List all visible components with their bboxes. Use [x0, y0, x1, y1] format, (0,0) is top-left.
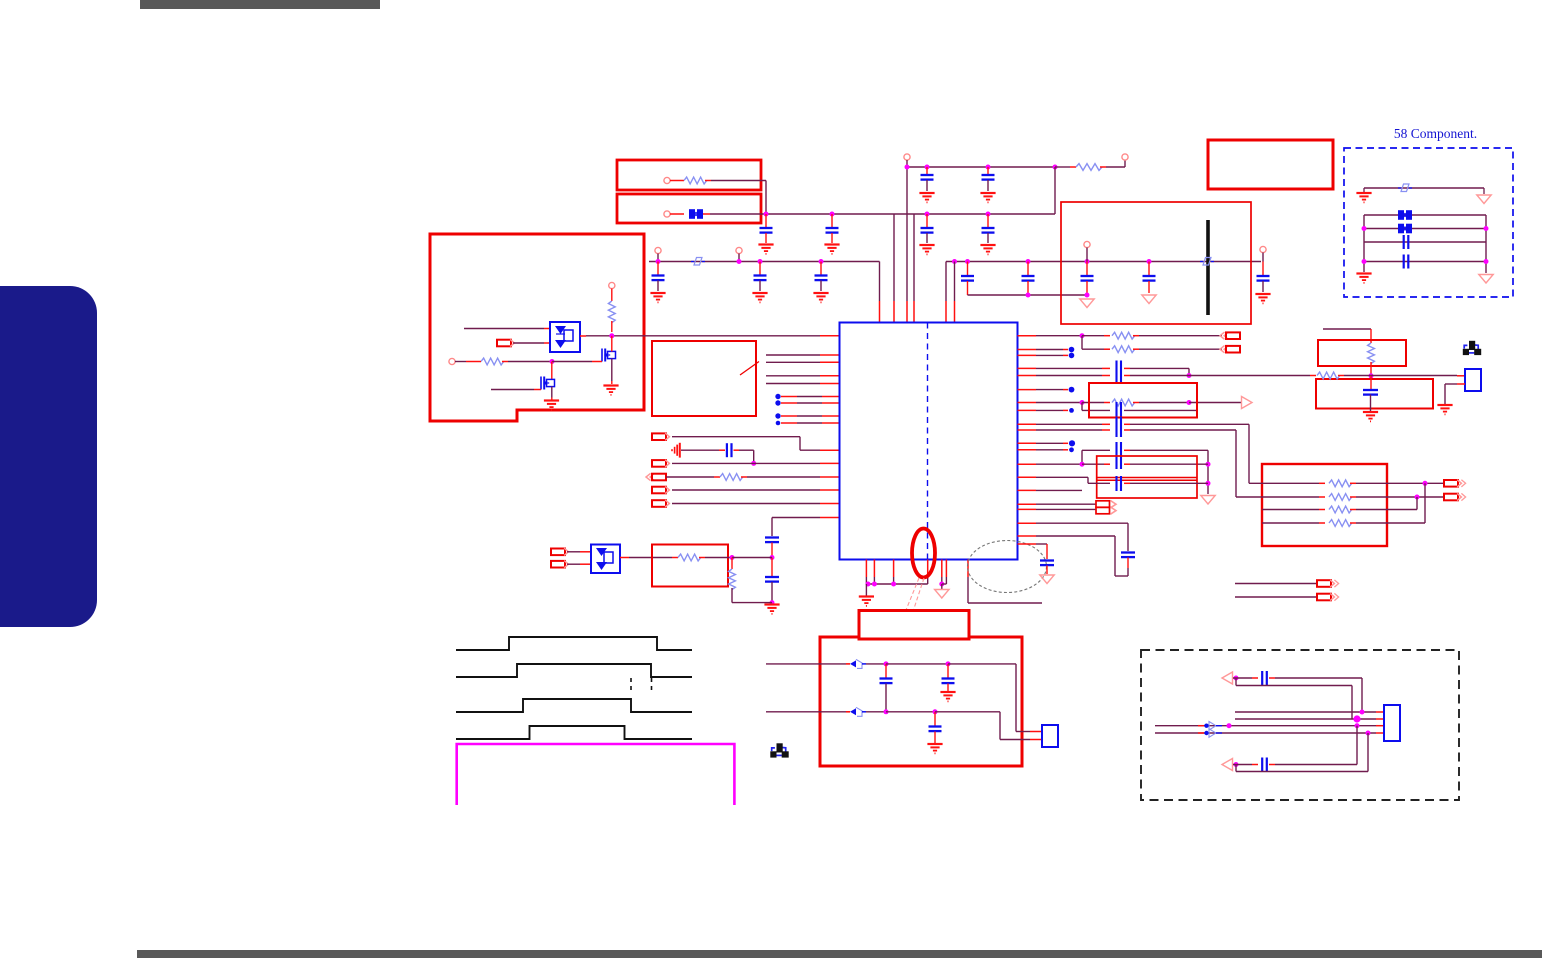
junction	[884, 661, 889, 666]
wire	[1082, 449, 1110, 451]
wire	[865, 584, 867, 596]
diode D6	[1209, 722, 1216, 731]
annotation box 12 (filter block)	[820, 637, 1022, 766]
wire	[1233, 764, 1252, 766]
junction	[866, 582, 871, 587]
wire gate	[491, 389, 534, 391]
hierarchy icon 2	[772, 748, 775, 751]
annotation box 3 (decoupling group)	[1061, 202, 1251, 324]
wire bottom bus	[866, 583, 927, 585]
wire	[766, 663, 846, 665]
no-connect stub	[1036, 389, 1063, 391]
pin P2	[664, 211, 670, 217]
wire	[865, 560, 867, 578]
ground	[940, 691, 955, 693]
annotation box 1 (resistor row)	[617, 160, 761, 190]
capacitor C15	[1403, 235, 1405, 249]
connector J6	[652, 500, 666, 507]
annotation box 9	[1262, 464, 1387, 546]
junction	[952, 259, 957, 264]
resistor R6	[672, 557, 678, 559]
wire	[620, 557, 629, 559]
wire	[1124, 482, 1130, 484]
wire	[1364, 241, 1486, 243]
diagonal mark	[740, 362, 759, 376]
wire	[766, 711, 846, 713]
wire	[1155, 732, 1376, 734]
wire	[866, 711, 886, 713]
junction	[1360, 710, 1365, 715]
ground GND triangle	[941, 584, 943, 589]
ground	[824, 243, 839, 245]
wire bus D	[946, 261, 1261, 263]
connector J13	[1096, 507, 1110, 514]
junction	[1080, 400, 1085, 405]
transistor pack Q4 (dual TVS diode)	[591, 545, 620, 574]
wire	[967, 560, 969, 578]
resistor R13	[1329, 506, 1352, 513]
wire	[1036, 375, 1102, 377]
capacitor C10	[967, 262, 969, 276]
connector J4	[646, 473, 651, 480]
wire bus A	[907, 166, 1055, 168]
wire	[1082, 335, 1104, 337]
wire	[766, 375, 820, 377]
capacitor C5	[926, 167, 928, 174]
connector J17	[1317, 594, 1331, 601]
annotation box 7	[1089, 383, 1197, 418]
capacitor C25	[1121, 551, 1135, 553]
junction	[751, 461, 756, 466]
wire	[551, 387, 553, 398]
wire	[1364, 261, 1486, 263]
wire	[927, 560, 929, 578]
junction	[965, 259, 970, 264]
junction	[1227, 723, 1232, 728]
pin P1	[664, 177, 670, 183]
diode D7	[1209, 729, 1216, 738]
resistor R16 on wire	[1317, 372, 1340, 379]
connector J12	[1096, 501, 1110, 508]
wire	[886, 663, 948, 665]
wire	[1081, 403, 1083, 411]
wire	[672, 436, 800, 438]
wire	[1055, 166, 1070, 168]
pin P5	[655, 247, 661, 253]
capacitor C11	[1027, 262, 1029, 276]
wire	[873, 560, 875, 578]
capacitor C26	[1040, 559, 1054, 561]
wire	[893, 560, 895, 578]
waveform trace 4	[456, 726, 692, 739]
resistor R7	[731, 558, 733, 570]
wire	[1235, 678, 1237, 686]
annotation box 10	[1318, 340, 1406, 366]
ground	[980, 244, 995, 246]
ground	[859, 595, 874, 597]
connector J7	[551, 549, 565, 556]
ground	[927, 743, 942, 745]
connector J22 (blue box)	[1384, 705, 1400, 741]
capacitor C1	[765, 214, 767, 227]
connector J15	[1444, 494, 1458, 501]
wire	[1124, 429, 1130, 431]
wire	[1082, 402, 1104, 404]
capacitor C21	[1115, 402, 1117, 418]
pin P6	[736, 247, 742, 253]
ground	[1255, 293, 1270, 295]
callout leader lines	[906, 578, 919, 610]
junction	[830, 212, 835, 217]
junction	[905, 165, 910, 170]
resistor R4	[481, 358, 504, 365]
no-connect stub	[775, 413, 780, 418]
wire	[1082, 463, 1110, 465]
ground GND triangle	[1040, 575, 1054, 584]
capacitor C3	[926, 214, 928, 227]
wire	[1139, 335, 1222, 337]
wire	[1139, 348, 1222, 350]
wire	[1124, 449, 1130, 451]
wire bus C	[649, 261, 880, 263]
wire	[1016, 731, 1030, 733]
junction	[1423, 481, 1428, 486]
wire	[1124, 423, 1130, 425]
resistor R12	[1329, 494, 1352, 501]
wire	[1036, 476, 1088, 478]
junction	[609, 333, 614, 338]
wire	[1356, 482, 1444, 484]
connector J9	[1220, 332, 1225, 339]
capacitor C22	[1115, 417, 1117, 437]
wire	[611, 336, 613, 352]
capacitor C7	[657, 262, 659, 275]
wire	[906, 160, 908, 301]
diode D3	[1401, 184, 1409, 192]
capacitor C8	[759, 262, 761, 275]
wire	[672, 489, 820, 491]
ground	[980, 192, 995, 194]
ground GND triangle	[1201, 496, 1215, 505]
capacitor C18	[765, 536, 779, 538]
resistor R9	[1112, 346, 1135, 353]
connector J20	[1222, 672, 1233, 684]
highlight ellipse	[912, 529, 935, 578]
ground	[1437, 404, 1452, 406]
junction	[1026, 259, 1031, 264]
wire	[1371, 375, 1457, 377]
transistor pack Q3 (dual diode)	[550, 322, 580, 352]
ground	[758, 243, 773, 245]
ground GND triangle	[1142, 295, 1156, 304]
capacitor C24	[1115, 476, 1117, 491]
wire	[886, 711, 935, 713]
junction	[1080, 333, 1085, 338]
capacitor C32	[1261, 758, 1263, 772]
wire	[935, 711, 1000, 713]
wire	[1269, 677, 1275, 679]
pin P9	[609, 282, 615, 288]
ground	[919, 192, 934, 194]
annotation box 5	[652, 341, 756, 416]
wire	[766, 383, 820, 385]
wire	[747, 476, 820, 478]
wire	[551, 362, 553, 380]
wire	[1457, 383, 1465, 385]
ground	[1363, 188, 1365, 192]
waveform trace 2	[456, 664, 692, 677]
connector J19 (blue box)	[1042, 725, 1058, 747]
junction	[1355, 723, 1360, 728]
ground	[650, 292, 665, 294]
wire	[1235, 711, 1376, 713]
connector J10	[1220, 346, 1225, 353]
wire	[766, 361, 820, 363]
IC right pin stubs	[1018, 335, 1037, 337]
left navy side tab	[0, 286, 97, 627]
capacitor C12	[1086, 262, 1088, 276]
resistor R8	[1112, 332, 1135, 339]
transistor Q2	[601, 349, 603, 362]
wire	[567, 551, 580, 553]
wire	[1269, 764, 1275, 766]
wire	[455, 361, 466, 363]
wire	[464, 328, 544, 330]
wire	[670, 180, 684, 182]
capacitor C6	[987, 167, 989, 174]
wire	[1189, 402, 1242, 404]
ground	[752, 292, 767, 294]
junction	[1187, 373, 1192, 378]
wire	[1155, 725, 1376, 727]
wire	[1054, 167, 1056, 214]
connector J18 (blue box)	[1465, 369, 1481, 391]
wire	[772, 517, 820, 519]
no-connect stub	[775, 400, 780, 405]
pin P3	[904, 154, 910, 160]
resistor R15	[1368, 343, 1375, 364]
pin P4	[1122, 154, 1128, 160]
wire	[611, 359, 613, 382]
wire	[711, 180, 766, 182]
junction	[1234, 676, 1239, 681]
diode D1	[694, 258, 702, 266]
annotation box 8	[1097, 456, 1197, 498]
wire	[913, 214, 915, 301]
capacitor C29	[947, 664, 949, 678]
wire	[681, 449, 719, 451]
connector J3	[652, 460, 666, 467]
wire	[1081, 336, 1083, 350]
capacitor C13	[1148, 262, 1150, 276]
wire	[1262, 509, 1319, 511]
dashed interface box	[1141, 650, 1459, 800]
wire	[666, 476, 714, 478]
wire	[1235, 718, 1376, 720]
junction	[1362, 226, 1367, 231]
no-connect stub	[1036, 349, 1063, 351]
capacitor C31	[1261, 671, 1263, 685]
wire	[1106, 166, 1125, 168]
thick black marker line	[1206, 220, 1210, 315]
no-connect stub	[1036, 409, 1063, 411]
junction	[884, 709, 889, 714]
wire	[1233, 677, 1252, 679]
ground	[1363, 411, 1378, 413]
junction	[986, 212, 991, 217]
connector J16	[1317, 580, 1331, 587]
ground GND triangle	[1080, 299, 1094, 308]
annotation box 4	[1208, 140, 1333, 189]
junction	[1206, 462, 1211, 467]
capacitor C30	[934, 712, 936, 726]
junction	[770, 600, 775, 605]
wire	[945, 560, 947, 578]
junction	[933, 709, 938, 714]
wire	[941, 560, 943, 578]
ground GND triangle	[1483, 188, 1485, 194]
wire	[1036, 489, 1082, 491]
junction	[1080, 462, 1085, 467]
hierarchy icon	[1464, 345, 1467, 348]
capacitor C28	[885, 664, 887, 678]
waveform trace 3	[456, 699, 692, 712]
wire	[1363, 215, 1365, 272]
waveform cursor marks	[630, 678, 632, 691]
resistor R2	[1076, 164, 1102, 171]
wire	[1235, 583, 1317, 585]
callout label box	[859, 611, 969, 640]
connector J1	[497, 340, 511, 347]
capacitor C23	[1115, 442, 1117, 469]
pin P7	[1084, 241, 1090, 247]
ground GND triangle	[1479, 275, 1493, 284]
junction	[1026, 293, 1031, 298]
wire	[954, 262, 956, 302]
junction	[1415, 495, 1420, 500]
ground	[1356, 272, 1371, 274]
junction	[1085, 293, 1090, 298]
wire	[1235, 765, 1237, 772]
connector J2	[652, 433, 666, 440]
bottom footer bar	[137, 950, 1542, 958]
capacitor C16	[1403, 255, 1405, 269]
wire	[1036, 402, 1082, 404]
capacitor C4	[987, 214, 989, 227]
wire	[1036, 503, 1096, 505]
junction	[550, 359, 555, 364]
resistor R14	[1329, 520, 1352, 527]
ferrite bead FB3	[1398, 224, 1404, 234]
annotation box 6	[652, 545, 728, 587]
ground	[919, 244, 934, 246]
wire bus E	[968, 294, 1088, 296]
diode D5	[846, 711, 850, 713]
ferrite bead FB2	[1398, 210, 1404, 220]
wire	[732, 602, 772, 604]
svg-text:58 Component.: 58 Component.	[1394, 126, 1477, 141]
no-connect stub	[1036, 442, 1063, 444]
wire	[1356, 496, 1444, 498]
wire	[1249, 482, 1319, 484]
junction	[925, 165, 930, 170]
wire	[580, 335, 586, 337]
capacitor C19	[771, 558, 773, 577]
resistor R10	[1112, 399, 1135, 406]
waveform trace 1	[456, 637, 692, 650]
ground	[544, 399, 559, 401]
junction	[1362, 259, 1367, 264]
wire	[945, 262, 947, 302]
ferrite bead FB1	[689, 209, 695, 219]
wire	[1036, 423, 1102, 425]
wire	[1262, 522, 1319, 524]
wire	[1036, 463, 1082, 465]
connector J21	[1222, 759, 1233, 771]
junction	[1353, 715, 1360, 722]
wire	[1364, 228, 1486, 230]
wire	[1139, 402, 1189, 404]
magenta highlight box	[457, 744, 735, 805]
no-connect stub	[776, 421, 781, 426]
wire	[672, 462, 820, 464]
annotation box 11	[1316, 379, 1433, 409]
wire VCC bus B	[710, 213, 1055, 215]
wire	[1036, 508, 1096, 510]
junction	[730, 555, 735, 560]
wire	[1356, 522, 1425, 524]
capacitor C2	[831, 214, 833, 227]
junction	[1366, 731, 1371, 736]
junction	[656, 259, 661, 264]
no-connect stub	[1036, 449, 1063, 451]
junction	[925, 212, 930, 217]
capacitor C14	[1262, 262, 1264, 276]
wire	[1124, 367, 1130, 369]
junction	[1085, 259, 1090, 264]
wire	[732, 557, 772, 559]
wire	[1124, 409, 1196, 411]
wire	[1236, 496, 1319, 498]
pin P8	[1260, 246, 1266, 252]
wire	[552, 361, 592, 363]
wire	[567, 563, 580, 565]
ground	[764, 603, 779, 605]
dashed component box	[1344, 148, 1513, 297]
wire	[948, 663, 1016, 665]
ground	[813, 292, 828, 294]
junction	[946, 661, 951, 666]
junction	[737, 259, 742, 264]
capacitor C17	[726, 443, 728, 457]
junction	[764, 212, 769, 217]
wire	[1036, 543, 1047, 545]
connector J5	[652, 487, 666, 494]
wire	[1235, 596, 1317, 598]
wire	[1364, 187, 1484, 189]
wire	[670, 213, 684, 215]
junction	[1147, 259, 1152, 264]
junction	[1234, 762, 1239, 767]
wire	[1323, 328, 1371, 330]
IC U1	[840, 323, 1018, 560]
ground	[603, 384, 618, 386]
resistor R3	[611, 289, 613, 302]
connector J8	[551, 561, 565, 568]
wire	[1036, 367, 1102, 369]
annotation outline (power block)	[430, 234, 644, 421]
junction	[1369, 373, 1374, 378]
